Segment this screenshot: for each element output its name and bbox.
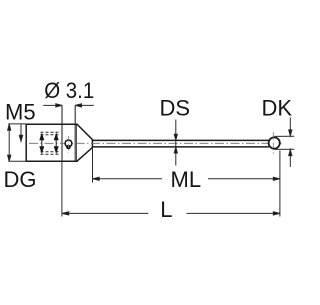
cross-hole circle — [65, 140, 72, 147]
DG dimension line with arrows — [8, 124, 11, 161]
dim 3.1 line left — [43, 104, 62, 107]
ball DK — [269, 137, 280, 148]
svg-text:DS: DS — [160, 95, 191, 120]
svg-text:DK: DK — [262, 95, 293, 120]
centerline main axis — [29, 142, 282, 144]
DK arrow top — [289, 118, 292, 136]
cone — [77, 124, 92, 161]
DG extension line top — [8, 123, 26, 125]
collar right edge + dim 3.1 extension line — [74, 105, 76, 161]
leader M5 — [19, 124, 22, 141]
thread depth arrow left — [40, 134, 44, 153]
thread hidden line top inner — [41, 134, 59, 136]
ML extension line left (cone tip) — [92, 149, 94, 183]
DK extension line top — [274, 135, 294, 137]
cross-hole lower blob — [66, 145, 70, 149]
stem top edge — [92, 139, 269, 141]
cross-hole vertical centerline — [67, 136, 69, 153]
DG extension line bottom — [8, 160, 26, 162]
DK extension line bottom — [274, 148, 294, 150]
DS dimension leader with arrows — [174, 120, 177, 166]
thread hidden line top outer — [41, 131, 59, 133]
thread depth arrow right — [54, 134, 58, 153]
svg-text:ML: ML — [171, 167, 202, 192]
svg-text:M5: M5 — [5, 100, 36, 125]
svg-text:L: L — [160, 197, 172, 222]
stylus body rectangle — [26, 124, 77, 161]
thread hidden line bottom outer — [41, 153, 59, 155]
svg-text:Ø 3.1: Ø 3.1 — [44, 78, 94, 103]
ball vertical centerline tick — [272, 132, 274, 153]
stem bottom edge — [92, 146, 269, 148]
collar left edge + dim 3.1 extension line — [61, 105, 63, 161]
svg-text:DG: DG — [4, 167, 37, 192]
L dimension line with arrows — [62, 212, 280, 215]
ML dimension line with arrows — [93, 177, 280, 180]
thread hidden line bottom inner — [41, 151, 59, 153]
DK arrow bottom — [289, 150, 292, 167]
dim 3.1 line right — [75, 104, 94, 107]
L extension line left (collar face) — [61, 162, 63, 217]
ML/L extension line right (ball edge) — [279, 151, 281, 217]
